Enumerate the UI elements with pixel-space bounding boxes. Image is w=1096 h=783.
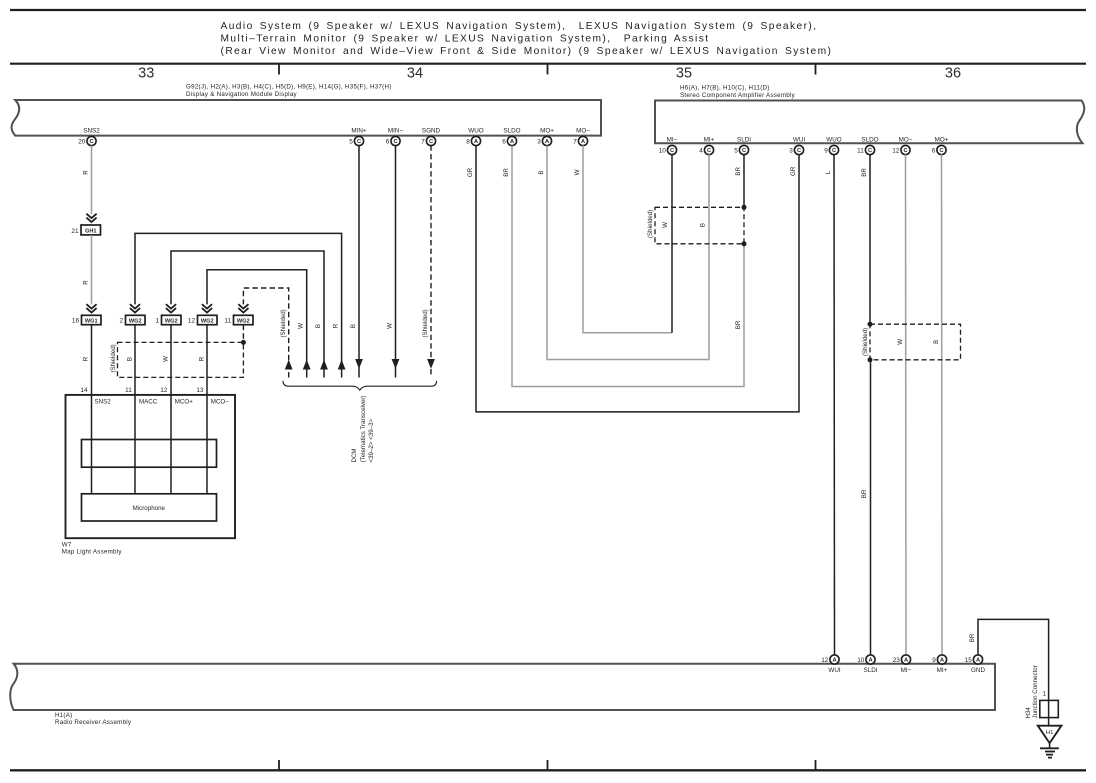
arrow down on MIN- wire — [392, 359, 400, 369]
svg-text:A: A — [868, 658, 872, 664]
svg-text:33: 33 — [138, 65, 154, 81]
pin 6 A SLDO — [502, 127, 520, 145]
pin 7 A MO- — [573, 127, 590, 145]
ground symbol — [1040, 743, 1059, 758]
bottom border rule — [10, 769, 1086, 771]
pin 8 A WUO — [466, 127, 484, 145]
svg-text:MI−: MI− — [667, 136, 678, 143]
wire B from DCM to WG2 1 — [171, 251, 324, 378]
shield drain wire dashed from DCM to WG2 11 — [243, 288, 288, 378]
pin 9 C WUO — [824, 136, 842, 154]
component label W7 Map Light Assembly — [62, 542, 123, 556]
pin 3 C WUI — [789, 136, 805, 154]
junction connector WG2 pin 11 — [224, 315, 253, 324]
svg-text:Radio Receiver Assembly: Radio Receiver Assembly — [55, 719, 132, 726]
wire MACC inside map light assembly — [134, 395, 136, 494]
pin 6 C MIN- — [386, 127, 404, 145]
wire BR from amplifier SLDO pin 11 to radio SLDI upper segment — [869, 154, 871, 324]
svg-text:A: A — [474, 139, 478, 145]
svg-text:R: R — [332, 323, 339, 328]
top border rule — [10, 9, 1086, 11]
svg-text:<39–2> <39–3>: <39–2> <39–3> — [368, 418, 375, 462]
svg-text:WG2: WG2 — [237, 319, 250, 325]
svg-text:W: W — [662, 222, 669, 228]
svg-text:(Shielded): (Shielded) — [862, 328, 869, 356]
svg-text:9: 9 — [824, 147, 828, 154]
arrow up on W wire — [303, 360, 311, 370]
component label H34 Junction Connector — [1025, 665, 1039, 718]
svg-text:WUI: WUI — [793, 136, 805, 143]
svg-text:(Shielded): (Shielded) — [647, 210, 654, 238]
svg-text:A: A — [832, 658, 836, 664]
svg-text:C: C — [868, 148, 872, 154]
connector arrow into WG1 — [86, 304, 96, 312]
svg-text:A: A — [581, 139, 585, 145]
pin 9 A MI+ radio — [932, 655, 947, 674]
wire BR from SLDO pin 6 to amplifier SLDI — [512, 145, 744, 386]
brace for DCM Telematics Transceiver — [283, 381, 437, 390]
svg-text:7: 7 — [573, 138, 577, 145]
wire from amplifier MO+ pin 6 to radio MI+ — [941, 154, 944, 655]
svg-text:12: 12 — [892, 147, 900, 154]
svg-text:(Rear View Monitor and Wide–Vi: (Rear View Monitor and Wide–View Front &… — [221, 46, 833, 57]
wire through H34 to ground point — [1048, 700, 1050, 725]
svg-text:Microphone: Microphone — [133, 505, 166, 512]
shield box around MACC MCO+ MCO- wires — [118, 342, 244, 377]
svg-text:SLDO: SLDO — [503, 127, 520, 134]
svg-text:34: 34 — [407, 65, 423, 81]
svg-text:C: C — [903, 148, 907, 154]
connector arrow into WG2 11 — [238, 304, 248, 312]
pin 10 A SLDI radio — [857, 655, 878, 674]
pin 10 C MI- — [659, 136, 678, 154]
svg-text:MO+: MO+ — [935, 136, 949, 143]
ground point triangle H1 — [1038, 726, 1062, 743]
component label G92/H2... Display & Navigation Module Display — [186, 84, 392, 99]
svg-text:DCM: DCM — [351, 448, 358, 462]
svg-text:WUO: WUO — [468, 127, 483, 134]
svg-text:11: 11 — [857, 147, 864, 154]
svg-text:11: 11 — [125, 387, 132, 394]
svg-text:W: W — [897, 339, 904, 345]
svg-text:12: 12 — [821, 657, 829, 664]
svg-text:WG2: WG2 — [129, 319, 142, 325]
pin 5 C SLDI — [734, 136, 751, 154]
wire GR from WUO pin 8 to amplifier WUI — [476, 145, 799, 412]
svg-text:23: 23 — [893, 657, 901, 664]
svg-text:C: C — [89, 139, 93, 145]
shield box around MI- MI+ wires — [655, 207, 744, 244]
wire W from DCM to WG2 12 — [207, 270, 307, 378]
svg-text:SLDI: SLDI — [737, 136, 751, 143]
svg-text:A: A — [545, 139, 549, 145]
svg-text:MIN+: MIN+ — [351, 127, 367, 134]
shield drain dashed from WG2 11 to shield box — [242, 325, 244, 343]
connector arrow into GH1 — [86, 214, 96, 222]
svg-text:(Telematics Transceiver): (Telematics Transceiver) — [360, 395, 367, 462]
svg-text:BR: BR — [735, 320, 742, 329]
wire SNS2 R from pin 20 to GH1 — [91, 145, 93, 214]
svg-text:10: 10 — [659, 147, 667, 154]
junction dot shield to WG2 11 — [241, 340, 246, 345]
svg-text:1: 1 — [1043, 691, 1047, 698]
svg-text:R: R — [82, 170, 89, 175]
svg-text:5: 5 — [349, 138, 353, 145]
svg-text:SLDO: SLDO — [861, 136, 878, 143]
svg-text:Audio System (9 Speaker w/ LEX: Audio System (9 Speaker w/ LEXUS Navigat… — [221, 21, 818, 32]
junction dot shield bottom on SLDI — [742, 241, 747, 246]
svg-text:21: 21 — [71, 228, 79, 235]
svg-text:SNS2: SNS2 — [83, 127, 100, 134]
junction dot shield top on SLDO — [868, 322, 873, 327]
microphone block — [82, 494, 217, 521]
wire BR SLDO lower segment to radio — [870, 360, 872, 655]
arrow up on shield wire — [285, 360, 293, 370]
svg-text:B: B — [350, 324, 357, 328]
svg-text:Stereo Component Amplifier Ass: Stereo Component Amplifier Assembly — [680, 92, 796, 99]
svg-text:35: 35 — [676, 65, 692, 81]
ruler tick bottom 2 — [547, 760, 549, 770]
wire B MIN+ from pin 5 to DCM — [358, 145, 360, 377]
svg-text:BR: BR — [969, 633, 976, 642]
pin 12 C MO- — [892, 136, 913, 154]
connector arrow into WG2 2 — [130, 304, 140, 312]
ruler tick bottom 1 — [278, 760, 280, 770]
wire L from amplifier WUO pin 9 to radio WUI — [833, 154, 836, 655]
component box W7 Map Light Assembly — [66, 395, 236, 538]
svg-text:MO−: MO− — [576, 127, 590, 134]
svg-text:MI+: MI+ — [937, 667, 948, 674]
svg-text:9: 9 — [932, 657, 936, 664]
wire R from WG2 12 to map light pin 13 — [206, 325, 208, 395]
wire W from WG2 1 to map light pin 12 — [170, 325, 172, 395]
svg-text:MACC: MACC — [139, 399, 158, 406]
wire B from MO+ pin 3 to amplifier MI+ — [547, 145, 709, 359]
svg-text:SLDI: SLDI — [864, 667, 878, 674]
svg-text:8: 8 — [466, 138, 470, 145]
svg-text:W: W — [386, 323, 393, 329]
svg-text:WG2: WG2 — [165, 319, 178, 325]
arrow up on R wire — [338, 360, 346, 370]
ruler tick bottom 3 — [815, 760, 817, 770]
wire from amplifier MO- pin 12 to radio MI- — [905, 154, 908, 655]
connector box U1 Display & Navigation Module Display — [12, 100, 601, 136]
svg-text:C: C — [832, 148, 836, 154]
svg-text:3: 3 — [789, 147, 793, 154]
svg-text:6: 6 — [932, 147, 936, 154]
svg-text:36: 36 — [945, 65, 961, 81]
svg-text:4: 4 — [699, 147, 703, 154]
component label H6/H7/H10/H11 Stereo Component Amplifier Assembly — [680, 85, 796, 100]
svg-text:MO−: MO− — [899, 136, 913, 143]
svg-text:20: 20 — [78, 138, 86, 145]
svg-text:BR: BR — [861, 168, 868, 177]
pin 5 C MIN+ — [349, 127, 367, 145]
svg-text:L: L — [825, 170, 832, 174]
arrow down on MIN+ wire — [355, 359, 363, 369]
junction dot shield bottom on SLDO — [868, 357, 873, 362]
component label H1(A) Radio Receiver Assembly — [55, 712, 132, 726]
ruler tick top 3 — [815, 64, 817, 75]
svg-text:WUO: WUO — [826, 136, 841, 143]
junction connector H34 box — [1040, 700, 1059, 717]
wire R from WG1 to map light pin 14 — [91, 325, 93, 395]
svg-text:C: C — [707, 148, 711, 154]
svg-text:B: B — [315, 324, 322, 328]
wire BR SLDI upper segment — [743, 154, 745, 207]
svg-text:WUI: WUI — [828, 667, 840, 674]
svg-text:C: C — [393, 139, 397, 145]
svg-text:7: 7 — [421, 138, 425, 145]
svg-text:B: B — [538, 170, 545, 174]
svg-text:SNS2: SNS2 — [95, 399, 112, 406]
svg-text:GR: GR — [467, 167, 474, 177]
svg-text:Map Light Assembly: Map Light Assembly — [62, 548, 123, 555]
svg-text:G92(J), H2(A), H3(B), H4(C), H: G92(J), H2(A), H3(B), H4(C), H5(D), H9(E… — [186, 84, 392, 91]
junction connector WG2 pin 2 — [119, 315, 145, 324]
svg-text:C: C — [939, 148, 943, 154]
wire R from DCM to WG2 2 — [135, 233, 342, 377]
svg-text:14: 14 — [80, 387, 88, 394]
pin 3 A MO+ — [537, 127, 554, 145]
svg-text:A: A — [940, 658, 944, 664]
svg-text:6: 6 — [502, 138, 506, 145]
wire R from GH1 to WG1 — [91, 235, 93, 305]
svg-text:13: 13 — [196, 387, 204, 394]
svg-text:WG1: WG1 — [85, 319, 98, 325]
connector arrow into WG2 12 — [202, 304, 212, 312]
svg-text:10: 10 — [857, 657, 865, 664]
svg-text:A: A — [976, 658, 980, 664]
svg-text:BR: BR — [861, 489, 868, 498]
svg-text:W: W — [298, 323, 305, 329]
ruler rule below title — [10, 63, 1086, 65]
svg-text:MI−: MI− — [901, 667, 912, 674]
svg-text:R: R — [82, 280, 89, 285]
inner block of map light assembly — [82, 440, 217, 468]
svg-text:C: C — [670, 148, 674, 154]
wire W MIN- from pin 6 to DCM — [395, 145, 397, 377]
wire B from WG2 2 to map light pin 11 — [134, 325, 136, 395]
ruler tick top 2 — [547, 64, 549, 75]
connector box U2 Stereo Component Amplifier Assembly — [655, 101, 1084, 144]
junction connector WG2 pin 1 — [155, 315, 181, 324]
svg-text:GND: GND — [971, 667, 985, 674]
wire MCO+ inside map light assembly — [170, 395, 172, 494]
shield box around MO- MO+ wires — [870, 324, 961, 360]
shield drain SGND dashed from pin 7 to DCM — [430, 145, 432, 377]
arrow up on B wire — [320, 360, 328, 370]
svg-text:BR: BR — [503, 168, 510, 177]
svg-text:MCO−: MCO− — [211, 399, 229, 406]
svg-text:12: 12 — [188, 318, 196, 325]
junction connector GH1 — [71, 225, 100, 235]
svg-text:C: C — [429, 139, 433, 145]
svg-text:Junction Connector: Junction Connector — [1032, 665, 1039, 718]
svg-text:(Shielded): (Shielded) — [280, 309, 287, 337]
svg-text:W: W — [574, 169, 581, 175]
junction dot shield top on SLDI — [742, 205, 747, 210]
svg-text:2: 2 — [119, 318, 123, 325]
svg-text:B: B — [126, 357, 133, 361]
svg-text:3: 3 — [537, 138, 541, 145]
svg-text:Display & Navigation Module Di: Display & Navigation Module Display — [186, 91, 298, 98]
pin 23 A MI- radio — [893, 655, 912, 674]
connector box H1 Radio Receiver Assembly — [10, 664, 995, 710]
svg-text:R: R — [198, 356, 205, 361]
svg-text:16: 16 — [72, 318, 80, 325]
svg-text:12: 12 — [160, 387, 168, 394]
svg-text:6: 6 — [386, 138, 390, 145]
svg-text:C: C — [797, 148, 801, 154]
pin 7 C SGND — [421, 127, 440, 145]
svg-text:A: A — [904, 658, 908, 664]
connector arrow into WG2 1 — [166, 304, 176, 312]
pin 11 C SLDO — [857, 136, 879, 154]
svg-text:1: 1 — [155, 318, 159, 325]
ruler tick top 1 — [278, 64, 280, 75]
svg-text:MI+: MI+ — [704, 136, 715, 143]
svg-text:R: R — [82, 356, 89, 361]
pin 6 C MO+ — [932, 136, 949, 154]
pin 20 C SNS2 — [78, 127, 100, 145]
svg-text:11: 11 — [224, 318, 231, 325]
svg-text:C: C — [357, 139, 361, 145]
junction connector WG2 pin 12 — [188, 315, 217, 324]
svg-text:Multi–Terrain Monitor (9 Speak: Multi–Terrain Monitor (9 Speaker w/ LEXU… — [221, 34, 710, 45]
wire W from MO- pin 7 to amplifier MI- — [583, 145, 672, 332]
svg-text:(Shielded): (Shielded) — [422, 309, 429, 337]
svg-text:GH1: GH1 — [85, 229, 97, 235]
pin 4 C MI+ — [699, 136, 714, 154]
svg-text:MIN−: MIN− — [388, 127, 404, 134]
svg-text:B: B — [699, 223, 706, 227]
title text block — [221, 21, 833, 57]
wire BR from radio GND pin 15 to junction connector H34 — [978, 619, 1049, 700]
svg-text:WG2: WG2 — [201, 319, 214, 325]
svg-text:5: 5 — [734, 147, 738, 154]
svg-text:SGND: SGND — [422, 127, 441, 134]
pin 15 A GND radio — [965, 655, 986, 674]
wire MCO- inside map light assembly — [206, 395, 208, 494]
wire MI- vertical into amplifier pin 10 — [671, 154, 673, 332]
svg-text:(Shielded): (Shielded) — [110, 344, 117, 372]
svg-text:MCO+: MCO+ — [175, 399, 193, 406]
svg-text:BR: BR — [735, 166, 742, 175]
svg-text:H34: H34 — [1025, 707, 1032, 719]
svg-text:H1: H1 — [1046, 730, 1054, 736]
wire SNS2 inside map light assembly — [91, 395, 93, 494]
svg-text:W: W — [162, 356, 169, 362]
svg-text:15: 15 — [965, 657, 973, 664]
svg-text:A: A — [510, 139, 514, 145]
pin 12 A WUI radio — [821, 655, 841, 674]
node label DCM Telematics Transceiver — [351, 395, 375, 462]
junction connector WG1 — [72, 315, 101, 324]
svg-text:B: B — [933, 340, 940, 344]
svg-text:MO+: MO+ — [540, 127, 554, 134]
svg-text:H6(A), H7(B), H10(C), H11(D): H6(A), H7(B), H10(C), H11(D) — [680, 85, 770, 92]
arrow down on SGND wire — [427, 359, 435, 369]
svg-text:C: C — [742, 148, 746, 154]
svg-text:GR: GR — [790, 166, 797, 176]
